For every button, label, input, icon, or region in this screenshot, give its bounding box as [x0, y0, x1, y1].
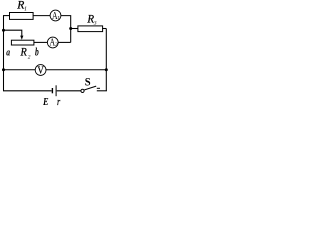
wire battery to switch	[57, 90, 81, 92]
voltmeter V	[35, 64, 46, 76]
svg-text:S: S	[85, 75, 91, 89]
wire R2 to A2	[34, 41, 48, 43]
svg-text:a: a	[6, 47, 10, 59]
svg-text:R: R	[20, 45, 28, 59]
wire node to R3	[71, 28, 79, 30]
wire bottom left to battery	[3, 90, 52, 92]
ammeter A1	[50, 10, 61, 22]
svg-text:1: 1	[24, 7, 27, 13]
wire right rail	[105, 29, 107, 91]
resistor R3	[78, 26, 103, 32]
wire V to right rail	[46, 69, 107, 71]
resistor R1	[10, 13, 34, 20]
label R1	[16, 0, 27, 13]
battery cell	[52, 85, 56, 96]
svg-text:E: E	[42, 96, 48, 108]
switch fixed contact	[97, 87, 100, 89]
wire left rail to V	[4, 69, 36, 71]
svg-text:2: 2	[28, 54, 31, 60]
wire switch to bottom right corner	[97, 90, 107, 92]
wire R1 to A1	[33, 15, 50, 17]
rheostat R2 box	[11, 40, 34, 45]
wire left rail	[3, 16, 5, 91]
svg-text:1: 1	[57, 16, 60, 22]
node voltmeter right	[105, 68, 108, 71]
wire R3 to right rail	[102, 28, 106, 30]
svg-text:2: 2	[55, 42, 58, 48]
wire A1 to node riser	[61, 16, 71, 29]
rheostat slider arrow	[20, 36, 23, 40]
switch S pivot	[81, 89, 84, 92]
node voltmeter left	[2, 68, 5, 71]
label R3	[86, 12, 96, 27]
wire top-left corner	[3, 15, 10, 17]
node junction of A1 A2 R3	[69, 27, 72, 30]
svg-text:3: 3	[93, 21, 97, 27]
node slider tap on left rail	[2, 29, 5, 32]
wire A2 to riser	[58, 41, 70, 43]
label R2	[20, 45, 31, 61]
ammeter A2	[47, 36, 58, 48]
wire slider tap to arrow	[4, 30, 22, 36]
wire A2 riser	[70, 29, 72, 43]
switch lever	[84, 86, 96, 90]
svg-text:b: b	[35, 44, 39, 58]
svg-text:V: V	[37, 64, 44, 76]
